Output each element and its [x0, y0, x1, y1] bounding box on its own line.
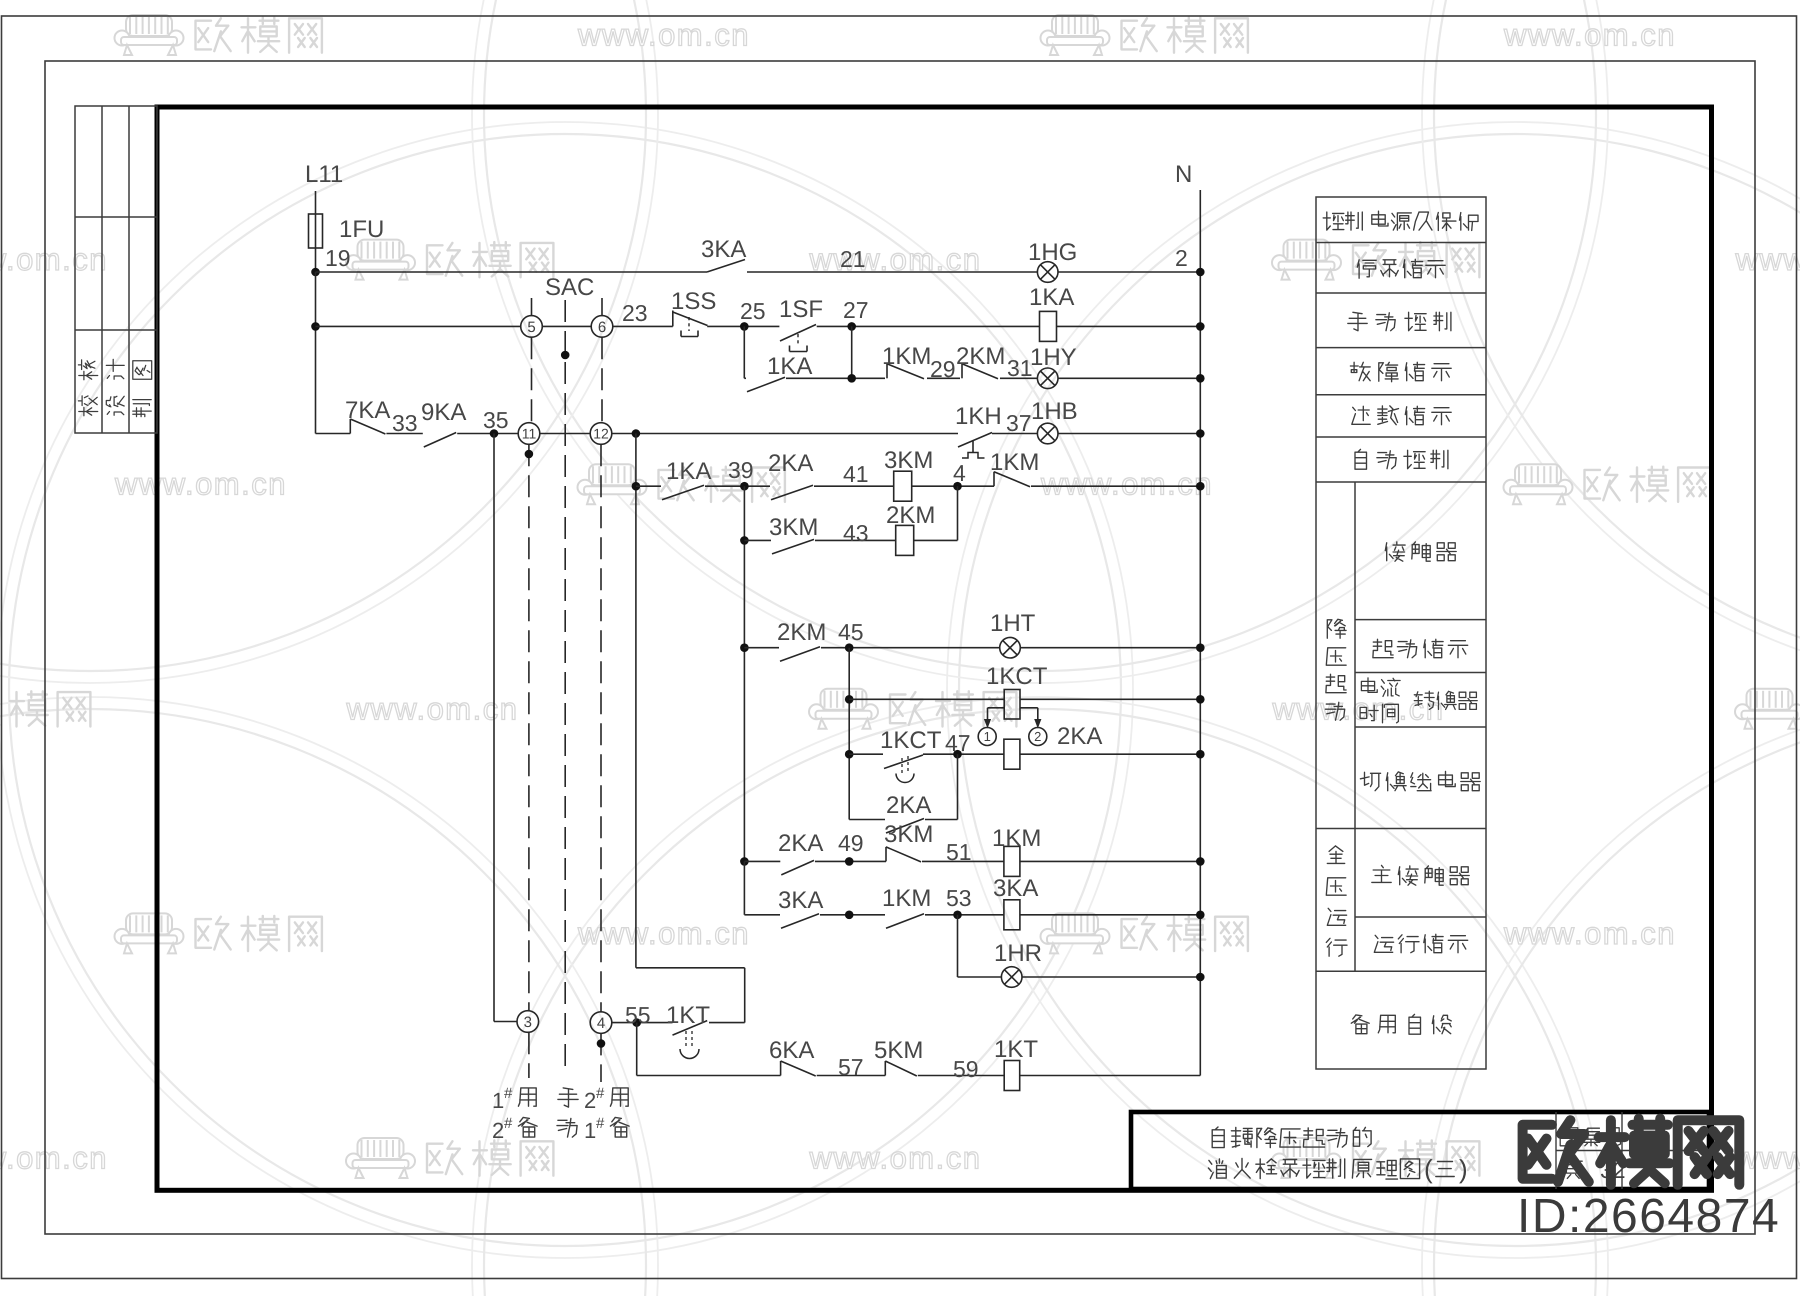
svg-text:3KM: 3KM	[884, 447, 933, 474]
svg-text:2: 2	[492, 1118, 504, 1143]
svg-text:25: 25	[740, 298, 766, 324]
node 25	[740, 322, 749, 331]
wire branch 25 down	[743, 326, 745, 378]
svg-text:4: 4	[953, 460, 966, 486]
contact 1KM seal	[886, 914, 924, 929]
svg-text:1HG: 1HG	[1028, 239, 1077, 266]
lamp 1HR	[1001, 967, 1022, 988]
contact 2KA nc	[771, 485, 813, 500]
node below 4	[597, 1039, 606, 1048]
svg-text:2KM: 2KM	[777, 619, 826, 646]
switch position 5	[521, 316, 543, 338]
wire row 49-51	[744, 860, 780, 862]
right table captions	[1323, 211, 1480, 1034]
contact 2KA bypass	[886, 819, 924, 834]
wire branch 45 down	[848, 648, 850, 820]
svg-text:39: 39	[728, 457, 754, 483]
node 45	[740, 643, 749, 652]
svg-text:2: 2	[1175, 245, 1188, 271]
svg-text:www.om.cn: www.om.cn	[1503, 18, 1676, 53]
svg-text:www.om.cn: www.om.cn	[577, 18, 750, 53]
svg-text:#: #	[504, 1085, 513, 1102]
svg-text:3KM: 3KM	[884, 821, 933, 848]
wire left rail down	[315, 272, 317, 434]
svg-text:(: (	[1424, 1154, 1433, 1184]
svg-text:23: 23	[622, 300, 648, 326]
wire row 39-41-4	[636, 485, 661, 487]
svg-text:53: 53	[946, 885, 972, 911]
svg-text:1: 1	[984, 729, 991, 744]
node at 1KA row	[847, 374, 856, 383]
svg-text:9KA: 9KA	[421, 399, 466, 426]
thermal contact 1KH	[958, 433, 992, 448]
svg-text:1KM: 1KM	[992, 825, 1041, 852]
svg-text:www.om.cn: www.om.cn	[1503, 916, 1676, 951]
node 43	[740, 536, 749, 545]
wire branch 27 down	[851, 326, 853, 378]
svg-text:1FU: 1FU	[339, 216, 384, 243]
coil 3KA	[1004, 900, 1020, 930]
svg-text:1SF: 1SF	[779, 296, 823, 323]
svg-text:33: 33	[392, 410, 418, 436]
selector point 2	[1029, 728, 1047, 746]
node 19	[311, 268, 320, 277]
contact 2KM nc	[961, 364, 963, 379]
wire node55 down to bottom row	[636, 1023, 638, 1076]
node 47	[953, 750, 962, 759]
svg-text:1: 1	[492, 1088, 504, 1113]
site logo watermark dark	[1523, 1120, 1589, 1182]
svg-text:29: 29	[930, 356, 956, 382]
dashed SAC link lines	[528, 444, 530, 1010]
svg-text:59: 59	[953, 1056, 979, 1082]
node 39-41	[740, 482, 749, 491]
contact 1KA auto	[662, 485, 704, 500]
svg-text:1KCT: 1KCT	[880, 727, 942, 754]
coil 1KT time relay	[1004, 1061, 1020, 1091]
stop button 1SS	[672, 311, 674, 327]
svg-text:2KA: 2KA	[886, 792, 931, 819]
svg-text:1KM: 1KM	[882, 885, 931, 912]
svg-text:www.om.cn: www.om.cn	[0, 1141, 108, 1176]
wire 53 down to 1HR	[957, 915, 959, 977]
delayed contact 1KCT	[884, 755, 923, 769]
contact 2KA start	[781, 860, 814, 875]
svg-text:1KA: 1KA	[666, 458, 711, 485]
start button 1SF	[780, 325, 816, 342]
wire row 1KCT coil	[849, 698, 1004, 700]
contact 3KM seal	[772, 539, 814, 554]
svg-text:2KM: 2KM	[886, 502, 935, 529]
selector point 1	[978, 728, 996, 746]
svg-text:1KA: 1KA	[767, 353, 812, 380]
svg-text:57: 57	[838, 1054, 864, 1080]
svg-text:ID:2664874: ID:2664874	[1517, 1190, 1780, 1243]
contact 2KM run	[780, 647, 820, 662]
wire row 47	[849, 753, 883, 755]
svg-text:www.om.cn: www.om.cn	[0, 242, 108, 277]
time delay contact 1KT	[673, 1021, 708, 1036]
lamp 1HT	[1000, 637, 1021, 658]
wire 35 rail down to 3	[493, 434, 495, 1022]
svg-text:11: 11	[522, 426, 537, 442]
wire branch 49 down	[743, 861, 745, 914]
coil 1KCT current-time converter	[1004, 690, 1020, 720]
svg-text:27: 27	[843, 297, 869, 323]
svg-text:37: 37	[1006, 410, 1032, 436]
wire row 43	[744, 539, 771, 541]
svg-text:31: 31	[1007, 355, 1033, 381]
svg-text:41: 41	[843, 461, 869, 487]
lamp 1HY	[1037, 368, 1058, 389]
svg-text:6: 6	[598, 319, 606, 336]
left header table	[75, 106, 157, 433]
switch position 6	[591, 316, 613, 338]
svg-text:): )	[1459, 1154, 1468, 1184]
svg-text:55: 55	[625, 1002, 651, 1028]
svg-text:www.om.cn: www.om.cn	[809, 1141, 982, 1176]
svg-text:21: 21	[840, 246, 866, 272]
svg-text:SAC: SAC	[545, 274, 594, 301]
svg-text:#: #	[596, 1115, 605, 1132]
coil 1KA	[1040, 311, 1057, 341]
tap arrows to selector points	[988, 707, 1005, 709]
switch position 12	[590, 423, 612, 445]
switch position 11	[518, 423, 540, 445]
wire row 53	[744, 914, 780, 916]
svg-text:1KCT: 1KCT	[986, 663, 1048, 690]
node 4	[953, 482, 962, 491]
contact 3KA	[707, 260, 745, 273]
svg-text:1KH: 1KH	[955, 403, 1002, 430]
svg-text:6KA: 6KA	[769, 1037, 814, 1064]
node 27	[847, 322, 856, 331]
svg-text:1KM: 1KM	[882, 343, 931, 370]
svg-text:49: 49	[838, 830, 864, 856]
wire row 19-21	[316, 271, 708, 273]
svg-text:www.om.cn: www.om.cn	[577, 916, 750, 951]
node 39 start	[632, 482, 641, 491]
contact 3KA nc	[781, 914, 819, 929]
node kct-row	[845, 695, 854, 704]
svg-text:1SS: 1SS	[671, 288, 716, 315]
wire row 45	[744, 647, 779, 649]
node 49 start	[740, 857, 749, 866]
contact 7KA	[349, 419, 351, 434]
coil 2KA	[1004, 739, 1020, 769]
wire row 55	[612, 1022, 673, 1024]
wire row 29-31	[744, 377, 746, 379]
wire 2KA bypass branch	[849, 819, 885, 821]
node on middle dashed line	[561, 351, 570, 360]
svg-text:3KA: 3KA	[993, 875, 1038, 902]
node at row 23	[311, 322, 320, 331]
svg-text:5: 5	[527, 319, 535, 336]
lamp 1HB	[1037, 423, 1058, 444]
svg-text:www.om.cn: www.om.cn	[1735, 1141, 1800, 1176]
thick drawing frame	[157, 107, 1712, 1190]
svg-text:2: 2	[584, 1088, 596, 1113]
switch position 3	[517, 1011, 539, 1033]
svg-text:51: 51	[946, 839, 972, 865]
coil 1KM main contactor	[1004, 846, 1020, 876]
svg-text:1HB: 1HB	[1031, 398, 1078, 425]
wire N bus	[1199, 190, 1201, 1076]
contact 1KM nc	[886, 364, 888, 379]
svg-text:2: 2	[1034, 729, 1041, 744]
wire L11 rail	[315, 191, 317, 272]
svg-text:#: #	[596, 1085, 605, 1102]
contact 5KM	[884, 1061, 886, 1076]
coil 3KM	[894, 471, 912, 501]
svg-text:www.om.cn: www.om.cn	[114, 467, 287, 502]
wire row 57-59	[637, 1075, 781, 1077]
wire row 23-25-27	[316, 325, 521, 327]
title block	[1131, 1112, 1709, 1189]
SAC position captions	[492, 1085, 629, 1143]
svg-text:4: 4	[597, 1015, 605, 1032]
svg-text:2KA: 2KA	[768, 450, 813, 477]
svg-text:1KA: 1KA	[1029, 284, 1074, 311]
dashed link 5-11	[531, 337, 533, 423]
node 53	[953, 911, 962, 920]
svg-text:1KT: 1KT	[666, 1002, 710, 1029]
svg-text:1HT: 1HT	[990, 610, 1036, 637]
svg-text:5KM: 5KM	[874, 1037, 923, 1064]
node after 12	[632, 429, 641, 438]
svg-text:3: 3	[524, 1014, 532, 1031]
contact 1KM interlock	[993, 472, 995, 487]
svg-text:35: 35	[483, 407, 509, 433]
node 45-junction	[845, 643, 854, 652]
node 53 mid	[845, 911, 854, 920]
svg-text:#: #	[504, 1115, 513, 1132]
lamp 1HG	[1037, 262, 1058, 283]
svg-text:19: 19	[325, 245, 351, 271]
switch position 4	[590, 1012, 612, 1034]
contact 6KA	[780, 1061, 782, 1076]
svg-text:1HR: 1HR	[994, 940, 1042, 967]
SAC stub lines	[531, 298, 533, 316]
svg-text:43: 43	[843, 520, 869, 546]
contact 1KA self-hold	[747, 377, 785, 392]
svg-text:www.om.cn: www.om.cn	[1040, 467, 1213, 502]
svg-text:12: 12	[593, 426, 609, 442]
left table rotated captions: 校核 设计 制图	[78, 359, 151, 416]
svg-text:2KM: 2KM	[956, 343, 1005, 370]
node 35	[490, 429, 499, 438]
svg-text:www.om.cn: www.om.cn	[1735, 242, 1800, 277]
svg-text:1: 1	[584, 1118, 596, 1143]
svg-text:www.om.cn: www.om.cn	[346, 691, 519, 726]
svg-text:3KM: 3KM	[769, 514, 818, 541]
svg-text:1KT: 1KT	[994, 1036, 1038, 1063]
svg-text:N: N	[1175, 161, 1192, 188]
right function table grid	[1316, 197, 1486, 1069]
dashed link 6-12	[601, 337, 603, 423]
svg-text:L11: L11	[305, 161, 343, 188]
svg-text:45: 45	[838, 619, 864, 645]
svg-text:2KA: 2KA	[1057, 723, 1102, 750]
svg-text:1KM: 1KM	[990, 449, 1039, 476]
svg-text:2KA: 2KA	[778, 830, 823, 857]
wire 2KM up to node4	[957, 486, 959, 540]
svg-text:7KA: 7KA	[345, 397, 390, 424]
node 49 mid	[845, 857, 854, 866]
svg-text:3KA: 3KA	[701, 236, 746, 263]
node 47 start	[845, 750, 854, 759]
wire row 33-35-37	[316, 433, 351, 435]
svg-text:3KA: 3KA	[778, 887, 823, 914]
node below 11	[525, 450, 534, 459]
wire vertical after-12 down	[635, 434, 637, 968]
wire U-link to 1KT contact	[636, 967, 745, 969]
node 55	[632, 1018, 641, 1027]
wire branch 41 down	[743, 486, 745, 861]
fuse 1FU	[309, 214, 323, 248]
coil 2KM	[896, 525, 914, 555]
svg-text:1HY: 1HY	[1030, 344, 1077, 371]
contact 9KA	[424, 433, 456, 448]
contact 3KM nc	[885, 847, 887, 862]
